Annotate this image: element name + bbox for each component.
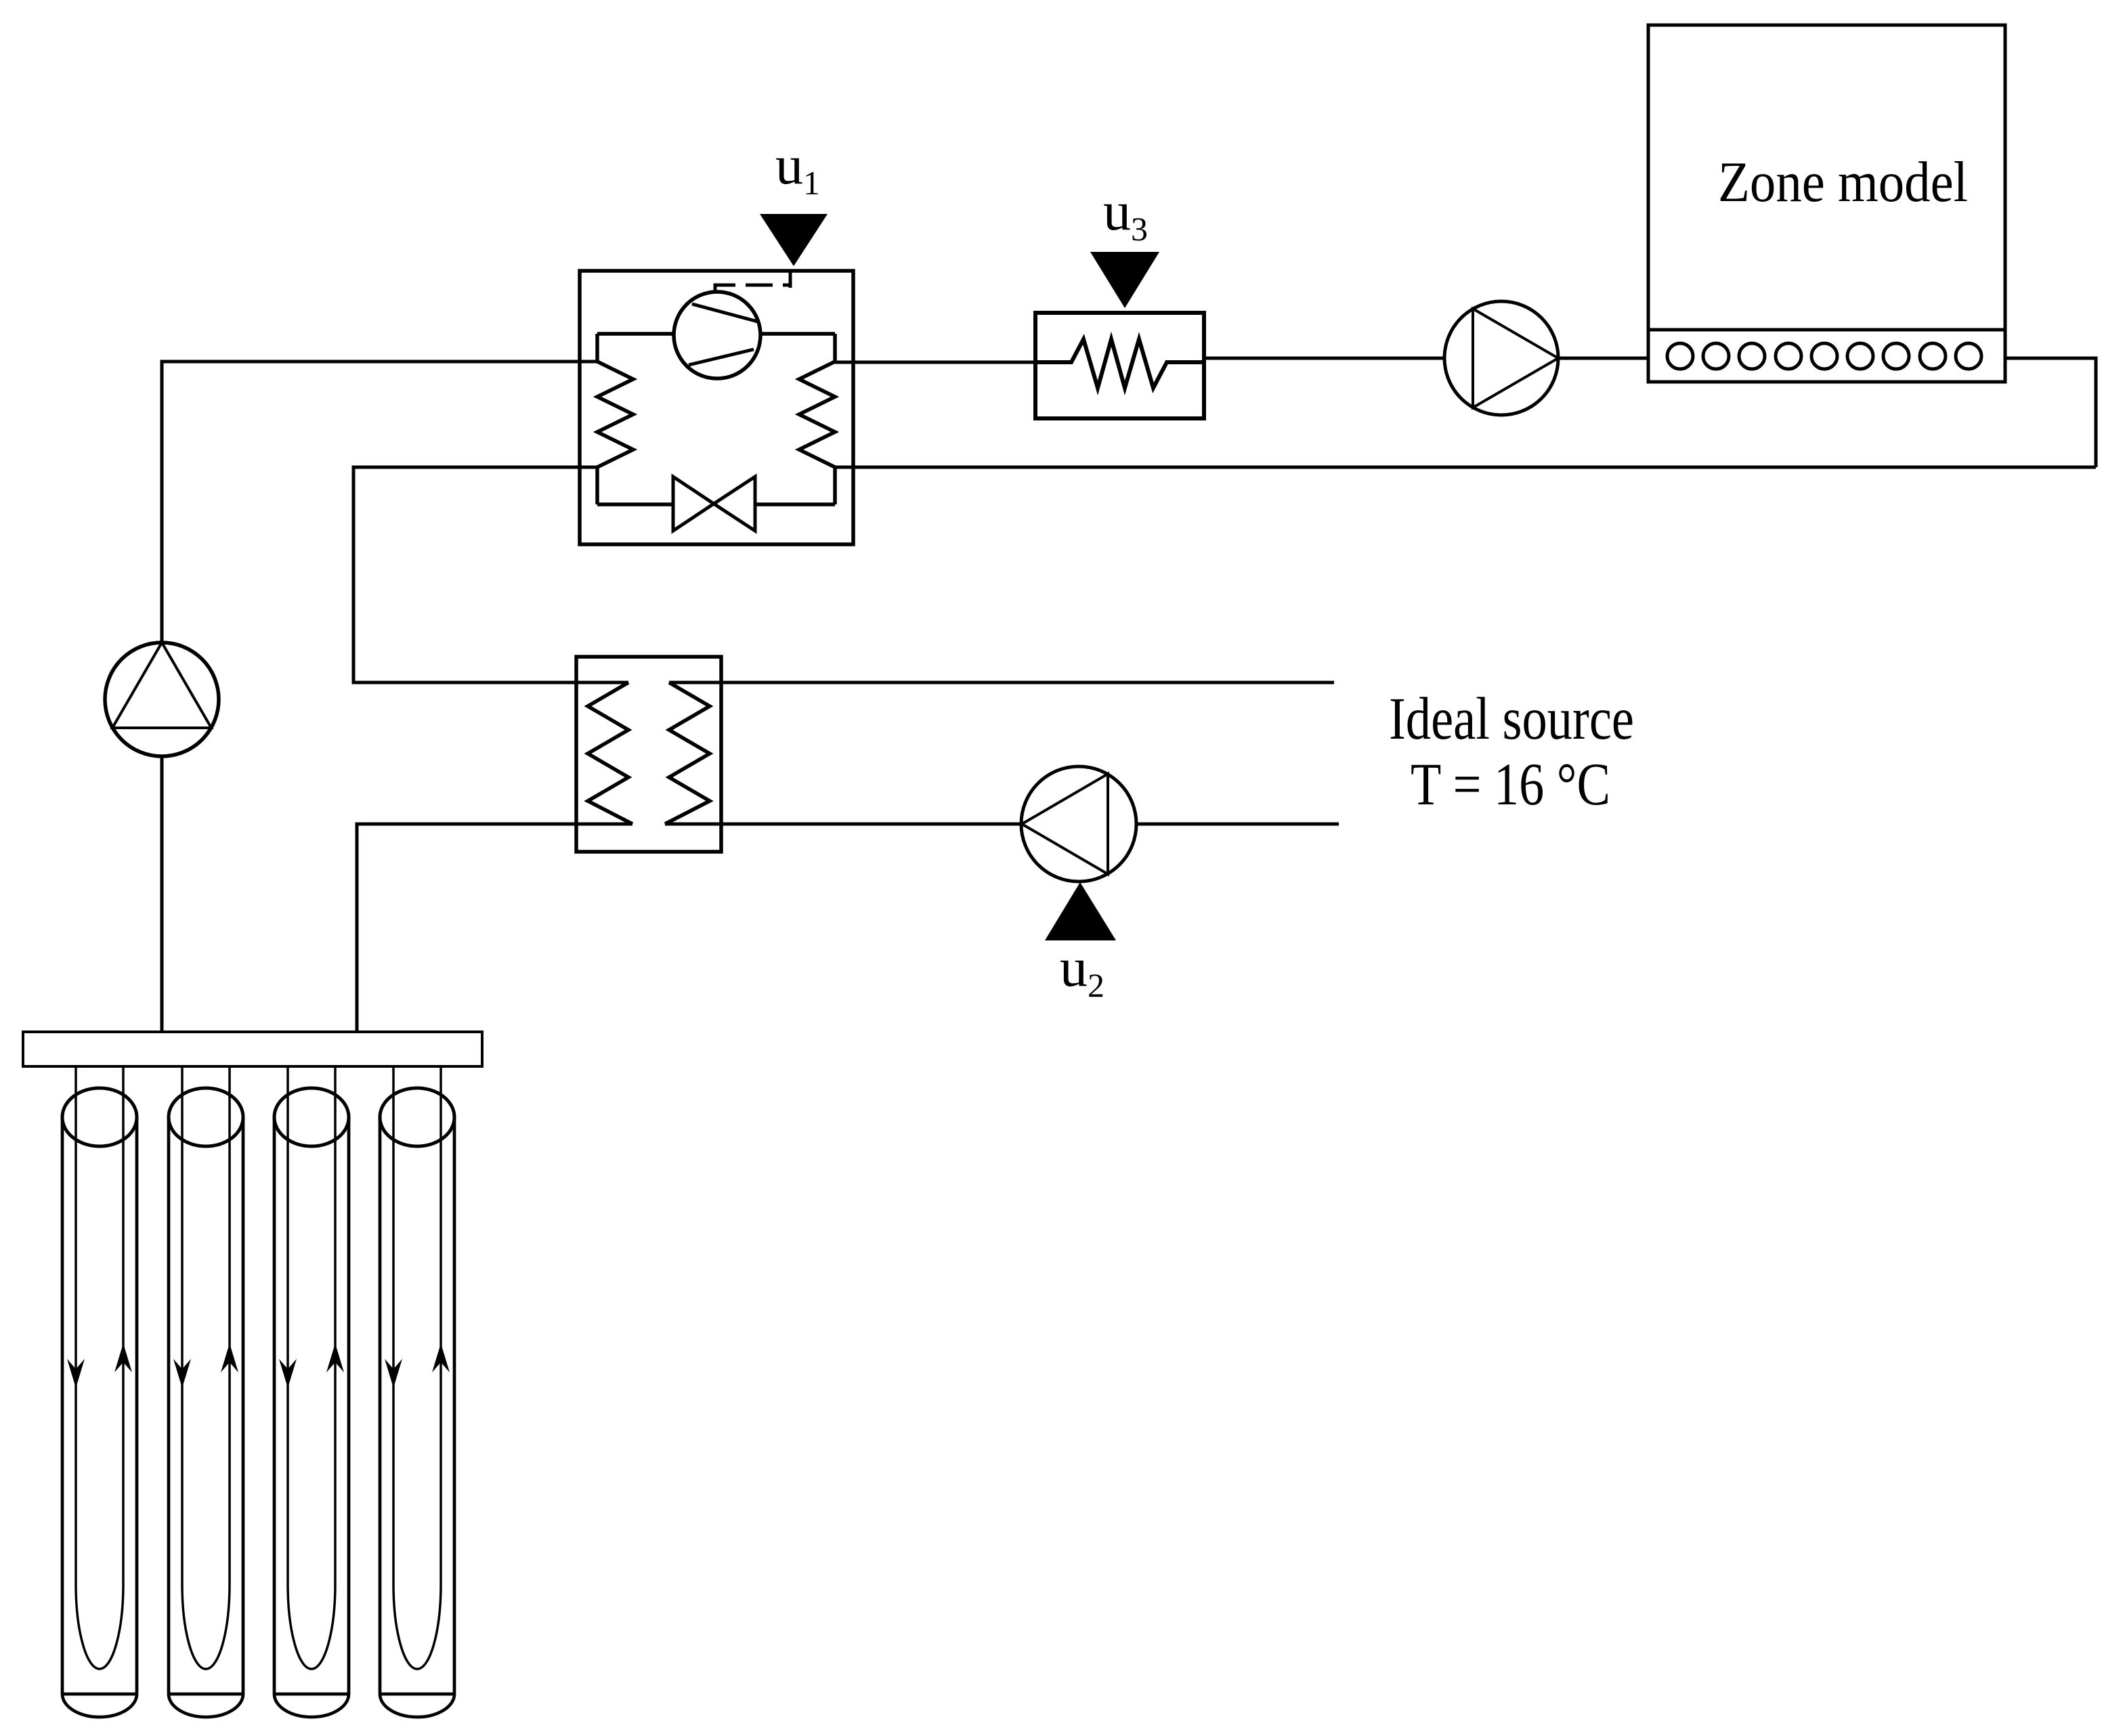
svg-text:Ideal source: Ideal source	[1389, 686, 1634, 752]
svg-text:Zone model: Zone model	[1718, 150, 1968, 214]
svg-text:T = 16 °C: T = 16 °C	[1411, 752, 1610, 818]
